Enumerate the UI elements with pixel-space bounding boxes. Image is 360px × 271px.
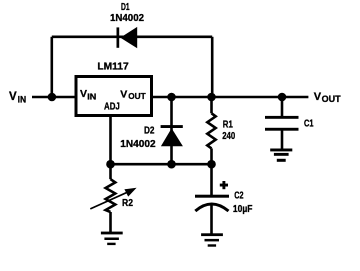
wire ADJ drop — [109, 117, 112, 164]
node junction D2 bottom — [167, 160, 176, 169]
wire C1 top lead — [281, 97, 284, 117]
R2 wiper arrow head — [124, 188, 136, 197]
wire riser to top rail — [50, 37, 53, 97]
svg-text:1N4002: 1N4002 — [120, 139, 156, 150]
capacitor C2 curved plate — [195, 204, 228, 211]
svg-text:V: V — [80, 88, 87, 100]
capacitor C1 bottom plate — [265, 128, 299, 131]
capacitor C1 top plate — [265, 116, 299, 119]
wire R2 top lead — [109, 164, 112, 179]
node junction ADJ/R2 — [106, 160, 115, 169]
wire main output rail — [152, 96, 308, 99]
wire VIN lead — [32, 96, 75, 99]
diode D1 triangle — [120, 27, 137, 48]
op-amp U1 LM117 box — [76, 77, 152, 116]
svg-text:V: V — [314, 91, 322, 103]
svg-text:R2: R2 — [122, 198, 133, 209]
svg-text:V: V — [9, 91, 17, 103]
resistor R2 zigzag — [106, 179, 116, 212]
diode D2 cathode bar — [161, 125, 183, 128]
wire C2 bottom lead — [210, 203, 213, 235]
wire R1 top lead — [210, 97, 213, 113]
wire top rail — [52, 35, 212, 38]
wire R2 bottom lead — [109, 212, 112, 233]
svg-text:IN: IN — [18, 94, 27, 105]
svg-text:LM117: LM117 — [97, 61, 129, 72]
node junction R1 bottom / C2 — [207, 160, 216, 169]
wire D2 branch — [170, 97, 173, 164]
svg-text:D2: D2 — [144, 126, 155, 137]
svg-text:C1: C1 — [304, 119, 314, 130]
svg-text:R1: R1 — [223, 120, 233, 131]
node junction C1 — [278, 93, 287, 102]
node junction VIN — [48, 93, 57, 102]
ground R2 — [101, 232, 123, 235]
R2 wiper arrow shaft — [90, 192, 128, 209]
svg-text:OUT: OUT — [322, 94, 341, 105]
wire C1 bottom lead — [281, 130, 284, 150]
svg-text:10µF: 10µF — [233, 204, 253, 215]
svg-text:OUT: OUT — [128, 91, 146, 101]
wire right drop from top rail — [211, 37, 214, 97]
resistor R1 zigzag — [207, 113, 215, 148]
node junction D2 top — [167, 93, 176, 102]
capacitor C2 straight plate — [195, 195, 229, 198]
wire C2 top lead — [210, 164, 213, 195]
ground C2 — [201, 233, 223, 236]
svg-text:IN: IN — [87, 91, 96, 101]
node junction R1 top — [207, 93, 216, 102]
svg-text:1N4002: 1N4002 — [110, 13, 144, 24]
svg-text:240: 240 — [222, 131, 235, 142]
diode D2 triangle — [161, 128, 183, 146]
diode D1 cathode bar — [117, 27, 120, 47]
wire bottom rail — [111, 163, 212, 166]
svg-text:D1: D1 — [121, 2, 130, 13]
svg-text:V: V — [120, 88, 127, 100]
wire R1 bottom lead — [210, 148, 213, 164]
svg-text:ADJ: ADJ — [104, 102, 120, 113]
C2 plus sign — [220, 184, 228, 187]
svg-text:C2: C2 — [234, 191, 244, 202]
ground C1 — [270, 149, 292, 152]
